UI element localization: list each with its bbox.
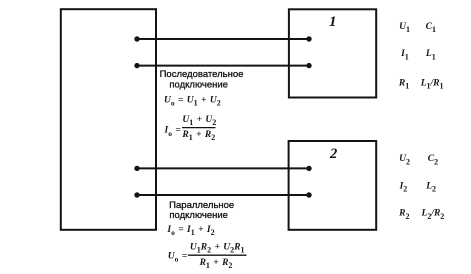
node wire3 right bbox=[306, 166, 311, 171]
svg-text:R1 + R2: R1 + R2 bbox=[181, 130, 215, 142]
svg-text:I1: I1 bbox=[400, 49, 409, 61]
node wire2 left bbox=[134, 63, 139, 68]
wire bottom 2 bbox=[137, 194, 309, 196]
svg-text:U2: U2 bbox=[399, 154, 410, 166]
wire top 2 bbox=[137, 65, 309, 67]
svg-text:U1R2 + U2R1: U1R2 + U2R1 bbox=[190, 242, 245, 254]
svg-text:подключение: подключение bbox=[169, 210, 228, 221]
node wire1 right bbox=[306, 36, 311, 41]
svg-text:R2: R2 bbox=[398, 209, 409, 221]
svg-text:L1/R1: L1/R1 bbox=[420, 78, 444, 90]
node wire4 left bbox=[134, 192, 139, 197]
wire bottom 1 bbox=[137, 167, 309, 169]
svg-text:Iо =: Iо = bbox=[164, 126, 181, 138]
svg-text:L2/R2: L2/R2 bbox=[421, 209, 445, 221]
svg-text:L2: L2 bbox=[425, 181, 436, 193]
svg-text:L1: L1 bbox=[425, 49, 436, 61]
svg-text:1: 1 bbox=[329, 14, 337, 30]
node wire3 left bbox=[134, 166, 139, 171]
svg-text:Iо = I1 + I2: Iо = I1 + I2 bbox=[166, 225, 214, 237]
svg-text:Uо =: Uо = bbox=[168, 252, 187, 264]
svg-text:Uо = U1 + U2: Uо = U1 + U2 bbox=[164, 95, 221, 107]
svg-text:R1 + R2: R1 + R2 bbox=[199, 258, 233, 270]
svg-text:C2: C2 bbox=[428, 154, 438, 166]
two-terminal network 1 (box) bbox=[289, 9, 376, 97]
svg-text:I2: I2 bbox=[399, 181, 408, 193]
svg-text:C1: C1 bbox=[426, 22, 436, 34]
two-terminal network 2 (box) bbox=[289, 141, 377, 230]
svg-text:подключение: подключение bbox=[169, 79, 228, 90]
svg-text:U1 + U2: U1 + U2 bbox=[182, 115, 216, 127]
wire top 1 bbox=[137, 38, 309, 40]
formula Io fraction bar bbox=[182, 127, 216, 129]
source block (left rectangle) bbox=[61, 9, 156, 230]
svg-text:R1: R1 bbox=[398, 78, 409, 90]
formula Uo fraction bar bbox=[188, 254, 247, 256]
svg-text:U1: U1 bbox=[399, 22, 410, 34]
svg-text:2: 2 bbox=[329, 146, 337, 162]
node wire4 right bbox=[306, 192, 311, 197]
node wire1 left bbox=[134, 36, 139, 41]
node wire2 right bbox=[306, 63, 311, 68]
